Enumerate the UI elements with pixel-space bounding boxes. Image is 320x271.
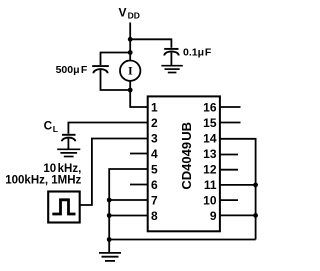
node CL label [44, 119, 58, 135]
wire pin 7 to left bus [109, 199, 148, 201]
wire pin 10 stub [220, 199, 238, 201]
capacitor 0.1uF [164, 49, 179, 66]
svg-text:DD: DD [128, 11, 140, 21]
IC U1 CD4049UB body [148, 96, 220, 231]
junction dot pin 8 [107, 213, 112, 218]
svg-text:0.1μF: 0.1μF [183, 47, 212, 59]
junction dot pin 9 [253, 213, 258, 218]
ground under 0.1uF [161, 66, 182, 73]
svg-text:I: I [128, 64, 133, 78]
svg-text:15: 15 [203, 116, 217, 130]
wire VDD stem [129, 23, 131, 61]
capacitor CL [62, 135, 76, 149]
svg-text:2: 2 [151, 116, 158, 130]
pulse generator square-wave glyph [52, 200, 75, 214]
svg-text:9: 9 [210, 209, 217, 223]
svg-text:6: 6 [151, 178, 158, 192]
wire pin 13 stub [220, 154, 238, 156]
svg-text:4: 4 [151, 147, 158, 161]
junction dot bottom left [107, 237, 112, 242]
wire pulse generator to pin 3 [80, 139, 148, 206]
wire ammeter to pin 1 [130, 81, 148, 107]
wire bottom rail [109, 239, 255, 241]
svg-text:14: 14 [203, 131, 217, 145]
ground under CL [57, 149, 80, 156]
junction dot below ammeter [128, 88, 133, 93]
capacitor 500uF branch wires [101, 53, 131, 91]
svg-text:V: V [119, 5, 127, 19]
svg-text:5: 5 [151, 162, 158, 176]
svg-text:100kHz, 1MHz: 100kHz, 1MHz [5, 175, 81, 187]
wire to 0.1uF branch [130, 39, 171, 48]
svg-text:7: 7 [151, 193, 158, 207]
svg-text:C: C [44, 119, 53, 133]
wire pin 5 to left bus [109, 169, 148, 240]
svg-text:8: 8 [151, 209, 158, 223]
node VDD label [119, 5, 140, 20]
junction dot pin 7 [107, 198, 112, 203]
wire pin 8 to left bus [109, 215, 148, 217]
wire pin 11 to right bus [220, 184, 256, 186]
svg-text:13: 13 [203, 147, 217, 161]
svg-text:11: 11 [204, 178, 217, 192]
svg-text:500μF: 500μF [56, 64, 88, 76]
pulse generator box [48, 192, 79, 223]
wire pin 16 stub [220, 106, 241, 108]
wire pin 12 stub [220, 169, 238, 171]
svg-text:CD4049UB: CD4049UB [179, 122, 194, 190]
wire pin 9 to right bus [220, 214, 256, 216]
wire pin 14 to right bus [220, 139, 256, 240]
junction dot pin 11 [253, 183, 258, 188]
svg-text:10kHz,: 10kHz, [43, 163, 81, 175]
svg-text:3: 3 [151, 131, 158, 145]
ammeter U-I [120, 60, 140, 80]
ground main [99, 240, 121, 261]
svg-text:1: 1 [151, 100, 158, 114]
svg-text:16: 16 [203, 100, 217, 114]
wire pin 4 stub [130, 153, 148, 155]
svg-text:L: L [53, 124, 58, 134]
svg-text:12: 12 [203, 162, 217, 176]
svg-text:10: 10 [203, 193, 217, 207]
junction dot above ammeter [128, 50, 133, 55]
wire pin 15 stub [220, 122, 241, 124]
capacitor 500uF [92, 66, 109, 73]
wire pin 2 to CL [68, 123, 147, 134]
wire pin 6 stub [130, 184, 148, 186]
junction dot top [128, 37, 133, 42]
